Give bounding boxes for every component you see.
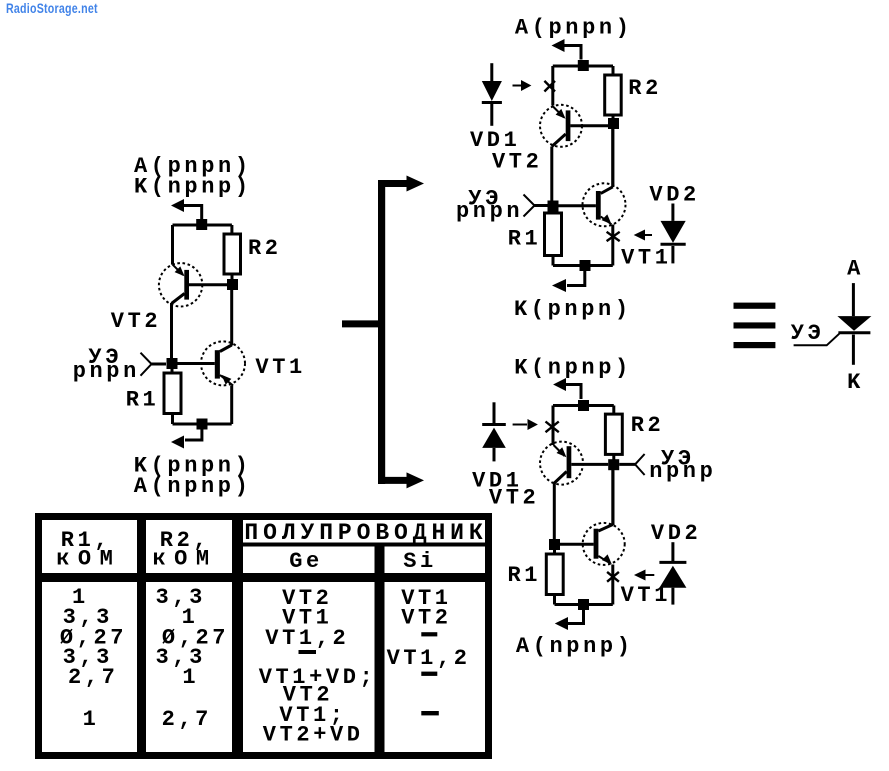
wire above R2 — [612, 406, 615, 415]
svg-text:npnp: npnp — [649, 459, 716, 484]
table divider col2/col3 — [232, 514, 243, 754]
node: R1/base junction — [549, 539, 560, 550]
svg-text:Si: Si — [403, 549, 437, 574]
svg-text:кОМ: кОМ — [152, 547, 217, 572]
transistor VT2 (top right, pnp) — [540, 105, 582, 147]
bracket bottom arrow — [407, 472, 425, 488]
break marker x (VT2 emitter) — [544, 81, 555, 92]
svg-text:K(npnp): K(npnp) — [134, 175, 252, 200]
wire cathode to top node — [566, 385, 582, 400]
wire R1 top — [553, 550, 556, 554]
transistor VT2 (bottom right, pnp) — [540, 442, 583, 485]
base wire VT2 — [571, 463, 608, 466]
svg-text:VT2: VT2 — [401, 606, 451, 631]
wire VT2 collector down to R1 node — [553, 484, 556, 540]
wire VT2 collector down to gate node — [170, 303, 173, 358]
svg-text:R2: R2 — [631, 413, 665, 438]
svg-text:VD2: VD2 — [651, 521, 701, 546]
value Si row7 dash — [421, 711, 439, 715]
wire top rail — [553, 404, 614, 407]
bracket top arm — [378, 180, 407, 187]
table header underline — [36, 573, 491, 582]
node: top junction — [578, 400, 589, 411]
equivalence sign bar 2 — [734, 322, 776, 328]
svg-text:УЭ: УЭ — [791, 321, 825, 346]
transistor VT1 (left) — [201, 341, 245, 385]
svg-text:Ge: Ge — [289, 549, 323, 574]
wire above R2 — [612, 66, 615, 75]
resistor R1 — [546, 554, 563, 595]
wire to R2 top — [230, 225, 233, 234]
wire VT1 emitter down to rail — [611, 225, 614, 266]
anode terminal arrow — [552, 39, 565, 52]
node: gate/R2 junction (left) — [227, 279, 238, 290]
gate terminal chevron — [635, 454, 645, 475]
wire R2 bottom to gate node — [231, 274, 234, 280]
value Si row5 dash — [421, 672, 437, 676]
anode terminal arrow (bottom) — [555, 617, 568, 630]
bottom rail — [555, 603, 613, 606]
node: top junction (left circuit) — [196, 219, 207, 230]
wire anode to top node — [564, 46, 581, 60]
svg-text:VT2: VT2 — [492, 149, 542, 174]
transistor VT1 (bottom right, npn) — [583, 523, 625, 565]
cathode terminal arrow (left) — [171, 436, 184, 449]
svg-text:VT1: VT1 — [255, 355, 305, 380]
wire anode to top node — [183, 206, 202, 220]
cathode terminal arrow (top) — [553, 378, 566, 391]
node: gate/R2 junction — [608, 459, 619, 470]
equivalence sign bar 1 — [734, 303, 776, 309]
table divider Ge/Si — [375, 546, 385, 753]
wire VT1 emitter down — [611, 565, 614, 605]
resistor R2 — [605, 414, 622, 454]
cathode terminal wire — [567, 271, 585, 286]
svg-text:VT2: VT2 — [111, 309, 161, 334]
wire terminal to gate node — [535, 204, 548, 207]
svg-text:VD2: VD2 — [649, 182, 699, 207]
light arrow at VD2 — [634, 230, 645, 241]
svg-text:1: 1 — [83, 707, 100, 732]
resistor R2 — [605, 75, 622, 115]
wire top rail — [553, 65, 613, 68]
wire node to VT1 base — [560, 543, 594, 546]
gate terminal chevron (left) — [141, 353, 152, 376]
diode VD2 (pointing up) — [659, 542, 686, 604]
diode VD1 — [482, 63, 502, 126]
node: bottom junction — [578, 599, 589, 610]
wire terminal to gate node — [152, 363, 167, 366]
gate terminal chevron — [524, 195, 535, 217]
svg-text:A(npnp): A(npnp) — [516, 634, 634, 659]
table divider col1/col2 — [137, 514, 146, 754]
node: gate junction (left) — [167, 358, 178, 369]
svg-text:pnpn: pnpn — [456, 199, 523, 224]
svg-text:pnpn: pnpn — [73, 359, 140, 384]
wire gate node to terminal — [619, 463, 635, 466]
wire VT1 emitter down to rail — [230, 386, 233, 425]
svg-text:VT1,2: VT1,2 — [387, 646, 471, 671]
node: bottom junction — [580, 260, 591, 271]
svg-text:R1: R1 — [126, 388, 160, 413]
value Si row3 dash — [421, 632, 437, 636]
resistor R1 (left) — [164, 373, 181, 414]
svg-text:кОМ: кОМ — [56, 547, 121, 572]
wire R1 bottom to rail — [553, 595, 556, 605]
wire gate node to R1 top — [171, 369, 174, 373]
wire R1 bottom to rail — [171, 414, 174, 425]
transistor VT1 (top right, npn) — [583, 183, 626, 226]
cathode terminal wire (left) — [185, 429, 202, 440]
diode VD1 (pointing up) — [482, 402, 506, 461]
base wire VT2 (left) — [189, 283, 227, 286]
svg-text:VT1,2: VT1,2 — [265, 626, 349, 651]
table outer frame — [39, 517, 489, 756]
svg-text:VT2: VT2 — [489, 486, 539, 511]
diode VD2 — [661, 204, 686, 264]
svg-text:R1: R1 — [508, 563, 542, 588]
bracket top arrow — [407, 176, 425, 192]
bottom rail — [553, 264, 613, 267]
equivalence sign bar 3 — [734, 342, 776, 348]
anode terminal arrow (left circuit) — [171, 199, 184, 212]
wire gate node to VT1 base — [559, 204, 596, 207]
wire to VT2 emitter — [171, 225, 174, 265]
wire stub from left circuit — [342, 320, 382, 327]
anode terminal wire (bottom) — [568, 610, 584, 624]
light arrow at VD1 — [513, 85, 523, 87]
svg-text:2,7: 2,7 — [162, 707, 212, 732]
svg-text:VT1: VT1 — [621, 245, 671, 270]
table line under semiconductor header — [243, 543, 487, 547]
wire left rail down to VT2 emitter — [552, 406, 555, 446]
svg-text:K(pnpn): K(pnpn) — [514, 297, 632, 322]
break marker x (VT1 emitter) — [607, 572, 619, 582]
break marker x (VT1 emitter) — [607, 232, 620, 241]
bracket bottom arm — [378, 477, 407, 484]
value Ge row4 dash — [299, 650, 317, 654]
svg-text:A(pnpn): A(pnpn) — [515, 16, 633, 41]
svg-text:R2: R2 — [628, 76, 662, 101]
resistor R1 — [545, 213, 562, 256]
light arrow at VD1 — [513, 424, 527, 426]
break marker x (VT2 emitter) — [546, 422, 559, 433]
light arrow at VD2 — [634, 570, 646, 581]
svg-text:ПОЛУПРОВОДНИК: ПОЛУПРОВОДНИК — [244, 520, 487, 546]
thyristor symbol — [794, 283, 872, 365]
node: R2/collector junction — [608, 118, 619, 129]
wire R1 bottom to rail — [552, 256, 555, 266]
svg-text:1: 1 — [182, 665, 199, 690]
svg-text:K(npnp): K(npnp) — [514, 356, 632, 381]
node: top junction — [578, 60, 589, 71]
svg-text:R2: R2 — [248, 236, 282, 261]
node: gate junction — [548, 201, 559, 212]
svg-text:K: K — [847, 370, 864, 395]
transistor VT2 (left, pnp) — [159, 263, 202, 306]
cathode terminal arrow — [552, 279, 566, 292]
wire gate node to VT1 base — [178, 362, 215, 365]
bracket vertical — [378, 180, 385, 484]
svg-text:VT2+VD: VT2+VD — [263, 723, 364, 748]
wire VT2 collector down to gate node — [550, 147, 553, 202]
svg-text:A: A — [847, 256, 864, 281]
wire R2 bottom to node — [612, 454, 615, 460]
wire VT1 collector up — [611, 470, 614, 525]
wire top rail — [173, 224, 232, 227]
wire R2 bottom to node — [612, 115, 615, 119]
wire gate node to R1 — [552, 212, 555, 214]
wire gate node down to VT1 collector — [230, 290, 233, 346]
wire left rail down to VT2 emitter — [551, 66, 554, 106]
base wire VT2 — [570, 124, 608, 127]
svg-text:R1: R1 — [508, 227, 542, 252]
bottom rail (left) — [173, 423, 232, 426]
site logo RadioStorage.net — [6, 0, 98, 16]
svg-text:2,7: 2,7 — [68, 665, 118, 690]
wire node down to VT1 collector — [611, 129, 614, 187]
wire gate node down to VT1 collector — [612, 470, 615, 525]
wire VT1 collector up — [611, 129, 614, 187]
svg-text:A(npnp): A(npnp) — [134, 474, 252, 499]
node: bottom junction (left) — [197, 419, 208, 430]
resistor R2 (left) — [224, 234, 241, 274]
